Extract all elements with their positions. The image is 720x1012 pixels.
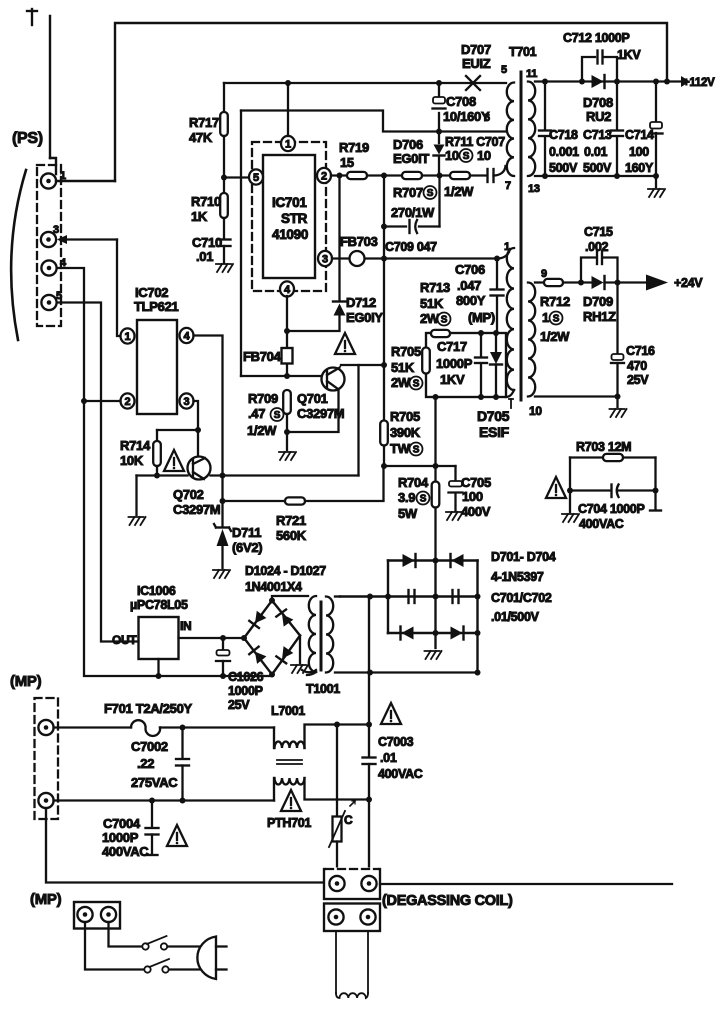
svg-text:.002: .002 — [585, 240, 608, 254]
svg-text:F701 T2A/250Y: F701 T2A/250Y — [104, 701, 193, 716]
svg-text:R707: R707 — [393, 185, 423, 200]
svg-text:500V: 500V — [583, 161, 612, 175]
svg-text:C706: C706 — [455, 262, 485, 277]
svg-text:IN: IN — [180, 619, 191, 633]
svg-text:5: 5 — [501, 64, 507, 76]
svg-text:R714: R714 — [120, 438, 151, 453]
svg-text:T701: T701 — [509, 45, 537, 59]
svg-text:1KV: 1KV — [440, 372, 465, 387]
svg-text:1/2W: 1/2W — [247, 423, 277, 438]
svg-text:15: 15 — [340, 155, 354, 170]
svg-text:C715: C715 — [584, 225, 613, 239]
svg-text:S: S — [463, 151, 470, 162]
svg-text:7: 7 — [505, 180, 511, 192]
svg-text:D708: D708 — [583, 95, 613, 110]
svg-text:(MP): (MP) — [30, 891, 62, 908]
svg-text:.22: .22 — [137, 756, 154, 771]
svg-text:1N4001X4: 1N4001X4 — [245, 580, 302, 594]
svg-text:EG0IY: EG0IY — [346, 310, 383, 325]
svg-text:C1026: C1026 — [228, 670, 264, 684]
svg-text:ESIF: ESIF — [479, 424, 510, 440]
svg-text:IC702: IC702 — [135, 285, 168, 300]
svg-text:2: 2 — [125, 396, 131, 408]
svg-text:2W: 2W — [391, 375, 411, 390]
svg-text:100: 100 — [462, 489, 483, 504]
svg-text:(MP): (MP) — [468, 310, 495, 325]
svg-text:C713: C713 — [583, 128, 612, 142]
svg-text:C7004: C7004 — [103, 816, 141, 831]
svg-text:R713: R713 — [420, 280, 450, 295]
svg-text:S: S — [420, 494, 427, 505]
svg-text:R721: R721 — [276, 513, 306, 528]
svg-text:10K: 10K — [120, 453, 144, 468]
svg-text:400VAC: 400VAC — [378, 767, 423, 781]
svg-text:560K: 560K — [276, 528, 307, 543]
svg-text:µPC78L05: µPC78L05 — [130, 598, 188, 612]
svg-text:C712 1000P: C712 1000P — [563, 31, 630, 45]
svg-text:S: S — [413, 379, 420, 390]
svg-text:RH1Z: RH1Z — [583, 309, 616, 324]
svg-text:(PS): (PS) — [12, 130, 43, 147]
svg-text:+24V: +24V — [674, 276, 703, 290]
svg-text:51K: 51K — [391, 360, 415, 375]
svg-text:RU2: RU2 — [586, 109, 611, 124]
svg-text:R719: R719 — [339, 140, 369, 155]
svg-text:3: 3 — [322, 254, 328, 266]
svg-text:.01: .01 — [380, 751, 397, 765]
svg-text:C714: C714 — [625, 128, 654, 142]
svg-text:3.9: 3.9 — [398, 490, 415, 505]
svg-text:S: S — [413, 445, 420, 456]
svg-text:5: 5 — [56, 290, 62, 302]
svg-text:4-1N5397: 4-1N5397 — [491, 570, 544, 584]
svg-text:S: S — [274, 410, 281, 421]
svg-text:L7001: L7001 — [271, 704, 305, 718]
svg-text:+112V: +112V — [683, 77, 715, 89]
svg-text:PTH701: PTH701 — [267, 816, 311, 830]
svg-text:R703 12M: R703 12M — [576, 440, 631, 454]
svg-text:R711 C707: R711 C707 — [445, 135, 505, 149]
svg-text:(DEGASSING COIL): (DEGASSING COIL) — [382, 893, 513, 909]
svg-text:100: 100 — [629, 145, 649, 159]
svg-text:STR: STR — [281, 211, 308, 226]
svg-text:275VAC: 275VAC — [131, 775, 178, 790]
svg-text:1KV: 1KV — [617, 48, 641, 62]
svg-text:10: 10 — [529, 404, 542, 418]
svg-text:OUT: OUT — [112, 633, 137, 647]
svg-text:TW: TW — [390, 441, 411, 456]
svg-text:C701/C702: C701/C702 — [491, 591, 552, 605]
svg-text:Q701: Q701 — [297, 391, 328, 406]
svg-text:D706: D706 — [393, 137, 423, 152]
svg-text:11: 11 — [526, 68, 537, 80]
svg-text:13: 13 — [528, 183, 540, 195]
svg-text:EUIZ: EUIZ — [462, 56, 491, 71]
svg-text:47K: 47K — [189, 130, 213, 145]
svg-text:160Y: 160Y — [625, 161, 654, 175]
svg-text:390K: 390K — [390, 425, 421, 440]
svg-text:C717: C717 — [437, 339, 467, 354]
svg-text:D1024 - D1027: D1024 - D1027 — [245, 564, 326, 578]
svg-text:Q702: Q702 — [173, 487, 204, 502]
svg-text:1: 1 — [542, 310, 549, 325]
svg-text:D705: D705 — [477, 408, 510, 424]
svg-text:R705: R705 — [391, 344, 421, 359]
svg-text:C708: C708 — [446, 94, 476, 109]
svg-text:.01/500V: .01/500V — [491, 610, 540, 624]
svg-text:S: S — [441, 315, 448, 326]
svg-text:10/160Y: 10/160Y — [443, 109, 490, 124]
svg-text:2: 2 — [321, 171, 327, 183]
svg-text:C705: C705 — [461, 475, 491, 490]
svg-text:IC1006: IC1006 — [137, 584, 176, 598]
svg-text:TLP621: TLP621 — [134, 299, 179, 314]
svg-text:6: 6 — [484, 112, 490, 124]
svg-text:C716: C716 — [626, 344, 655, 358]
svg-text:0.001: 0.001 — [549, 145, 579, 159]
svg-text:800Y: 800Y — [456, 293, 486, 308]
svg-text:25V: 25V — [627, 373, 649, 387]
svg-text:C3297M: C3297M — [173, 502, 220, 517]
svg-text:C7003: C7003 — [378, 735, 414, 749]
svg-text:1K: 1K — [191, 209, 208, 224]
svg-text:270/1W: 270/1W — [391, 205, 435, 220]
svg-text:(MP): (MP) — [10, 673, 42, 690]
svg-text:400VAC: 400VAC — [579, 517, 624, 531]
svg-text:51K: 51K — [420, 296, 444, 311]
svg-text:D709: D709 — [583, 294, 613, 309]
svg-text:D712: D712 — [346, 295, 376, 310]
svg-text:C704 1000P: C704 1000P — [578, 502, 645, 516]
svg-text:D701- D704: D701- D704 — [491, 550, 556, 564]
svg-text:1: 1 — [125, 331, 131, 343]
svg-text:(6V2): (6V2) — [232, 540, 262, 555]
svg-text:1000P: 1000P — [436, 356, 473, 371]
svg-text:41090: 41090 — [272, 227, 308, 242]
svg-text:R705: R705 — [390, 409, 420, 424]
svg-text:T1001: T1001 — [306, 682, 340, 696]
svg-text:S: S — [427, 188, 434, 199]
svg-text:1/2W: 1/2W — [540, 329, 570, 344]
svg-text:500V: 500V — [549, 161, 578, 175]
svg-text:S: S — [553, 314, 560, 325]
svg-text:1000P: 1000P — [102, 830, 139, 845]
svg-text:R704: R704 — [398, 475, 429, 490]
svg-text:10: 10 — [477, 148, 491, 163]
svg-text:5W: 5W — [398, 506, 418, 521]
svg-text:C709 047: C709 047 — [385, 240, 437, 254]
svg-text:C3297M: C3297M — [297, 406, 344, 421]
svg-text:R712: R712 — [540, 294, 570, 309]
svg-text:R709: R709 — [248, 391, 278, 406]
svg-text:D711: D711 — [232, 525, 261, 540]
svg-text:R717: R717 — [189, 115, 219, 130]
svg-text:C710: C710 — [192, 235, 222, 250]
svg-text:.47: .47 — [248, 406, 265, 421]
svg-text:IC701: IC701 — [272, 195, 307, 210]
svg-text:R710: R710 — [191, 194, 221, 209]
svg-text:5: 5 — [253, 172, 259, 184]
svg-text:C7002: C7002 — [131, 739, 168, 754]
svg-text:EG0IT: EG0IT — [393, 151, 429, 166]
svg-text:400VAC: 400VAC — [102, 844, 149, 859]
svg-text:FB704: FB704 — [243, 349, 282, 364]
svg-text:D707: D707 — [461, 42, 491, 57]
svg-text:C: C — [344, 813, 353, 827]
svg-text:25V: 25V — [228, 698, 250, 712]
svg-text:1/2W: 1/2W — [444, 184, 474, 199]
svg-text:FB703: FB703 — [340, 234, 378, 249]
svg-text:3: 3 — [53, 224, 59, 236]
svg-text:0.01: 0.01 — [584, 145, 607, 159]
svg-text:10: 10 — [445, 148, 459, 163]
svg-text:470: 470 — [627, 359, 647, 373]
svg-text:400V: 400V — [461, 504, 491, 519]
svg-text:.01: .01 — [196, 249, 213, 264]
svg-text:1: 1 — [285, 139, 291, 151]
svg-text:C718: C718 — [549, 128, 578, 142]
svg-text:1000P: 1000P — [228, 684, 263, 698]
svg-text:.047: .047 — [457, 278, 481, 293]
svg-text:3: 3 — [184, 396, 190, 408]
